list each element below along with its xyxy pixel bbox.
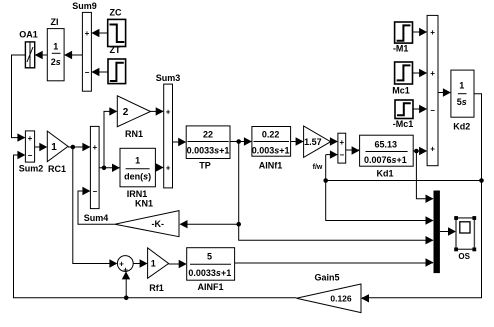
transfer fcn ZI 1/2s (47, 17, 64, 81)
step source -M1 (393, 22, 413, 53)
transfer fcn TP 22/(0.0033s+1) (186, 126, 230, 171)
wire TP branch down to -K- and Mux input 3 (180, 142, 434, 245)
transfer fcn Kd2 1/5s (451, 70, 474, 131)
svg-text:f/w: f/w (313, 164, 323, 171)
svg-text:−: − (339, 151, 344, 160)
wire Sum2 to RC1 (35, 143, 48, 151)
svg-text:Sum9: Sum9 (72, 1, 97, 11)
wire ZC to Sum9 plus (91, 29, 107, 37)
sum block right Sum6 (427, 15, 438, 165)
wire ZT to Sum9 minus (91, 68, 108, 76)
wire TP to AINf1 with junction (230, 137, 252, 145)
wire ZI to OA1 (35, 51, 48, 59)
svg-text:1: 1 (51, 142, 57, 153)
svg-text:0.0033s+1: 0.0033s+1 (187, 146, 230, 156)
wire Sum4 to IRN1 with branch up to RN1 (99, 107, 120, 172)
svg-text:AINF1: AINF1 (197, 282, 223, 292)
svg-text:ZC: ZC (110, 8, 122, 18)
sum block Sum2 (19, 131, 44, 174)
step source -Mc1 (393, 100, 414, 129)
svg-text:KN1: KN1 (135, 198, 153, 208)
sum block Sum4 (84, 126, 109, 223)
step source ZT (108, 45, 126, 84)
gain f/w value 1.57 (304, 126, 331, 171)
svg-text:0.003s+1: 0.003s+1 (252, 146, 290, 156)
svg-text:1: 1 (135, 155, 140, 165)
wire RN1 to Sum3 upper plus (151, 107, 164, 115)
svg-text:TP: TP (199, 161, 211, 171)
wire Kd2 branch left to Sum5 minus and Mux input 2 (323, 150, 481, 224)
gain Rf1 value 1 (148, 248, 169, 293)
svg-text:22: 22 (203, 129, 213, 139)
svg-text:1: 1 (459, 80, 464, 90)
svg-text:Sum4: Sum4 (84, 213, 109, 223)
svg-text:+: + (85, 29, 90, 38)
wire Mc1 to right sum (413, 69, 428, 77)
svg-text:ZT: ZT (110, 45, 121, 55)
svg-text:−: − (85, 68, 90, 77)
svg-text:-Mc1: -Mc1 (393, 119, 414, 129)
svg-text:2s: 2s (51, 57, 61, 67)
svg-text:2: 2 (123, 107, 129, 118)
svg-text:0.0076s+1: 0.0076s+1 (364, 155, 407, 165)
svg-text:den(s): den(s) (124, 171, 151, 181)
step source ZC (108, 8, 126, 47)
wire -K- output to Sum4 minus (78, 187, 115, 224)
svg-text:RN1: RN1 (125, 129, 143, 139)
svg-text:RC1: RC1 (48, 164, 66, 174)
svg-text:+: + (339, 138, 344, 147)
svg-text:Sum3: Sum3 (156, 73, 181, 83)
svg-text:+: + (28, 134, 33, 143)
round sum Sum7 (117, 256, 133, 275)
svg-text:Kd1: Kd1 (376, 168, 393, 178)
svg-text:+: + (166, 163, 171, 172)
wire Mux to scope OS (440, 227, 456, 235)
svg-text:1: 1 (151, 259, 156, 269)
wire RC1 to Sum4 plus with junction (68, 143, 90, 151)
wire Sum9 to ZI (64, 51, 82, 59)
sum block Sum9 (72, 1, 97, 91)
wire round sum to Rf1 (133, 259, 147, 267)
sum block Sum3 (156, 73, 181, 188)
sum block Sum5 (338, 133, 346, 163)
svg-text:65.13: 65.13 (375, 140, 398, 150)
svg-text:Kd2: Kd2 (453, 121, 470, 131)
step source Mc1 (392, 62, 412, 95)
svg-text:+: + (430, 28, 435, 37)
wire Rf1 to AINF1 (169, 260, 187, 268)
transfer fcn AINf1 0.22/(0.003s+1) (252, 127, 291, 171)
wire Gain5 output along bottom to Sum2 minus with branch up to round sum (14, 151, 297, 300)
mux Mux1 (434, 191, 440, 274)
svg-text:1.57: 1.57 (304, 137, 322, 147)
gain RN1 value 2 (117, 96, 150, 139)
svg-text:+: + (166, 107, 171, 116)
svg-text:OS: OS (458, 252, 470, 261)
scope OS with selection handles (454, 216, 476, 261)
svg-text:−: − (28, 151, 33, 160)
wire RC1 branch down to round sum (73, 147, 118, 268)
svg-text:Gain5: Gain5 (314, 273, 339, 283)
svg-text:5s: 5s (457, 97, 467, 107)
wire Sum5 to Kd1 (346, 146, 360, 154)
wire AINf1 to gain f/w (291, 137, 304, 145)
wire OA1 to Sum2 plus (12, 55, 26, 142)
svg-text:1: 1 (53, 42, 58, 52)
svg-text:Sum2: Sum2 (19, 164, 44, 174)
svg-text:0.0033s+1: 0.0033s+1 (188, 268, 231, 278)
svg-text:Rf1: Rf1 (149, 283, 164, 293)
wire -M1 to right sum (413, 28, 428, 36)
svg-text:OA1: OA1 (19, 30, 38, 40)
wire Sum3 to TP (173, 138, 187, 146)
svg-text:-M1: -M1 (393, 43, 409, 53)
svg-text:-K-: -K- (152, 219, 165, 229)
svg-text:Mc1: Mc1 (392, 85, 410, 95)
svg-text:5: 5 (207, 251, 212, 261)
wire Kd1 to right sum with junction and branch to Mux input 1 (413, 147, 433, 203)
svg-text:ZI: ZI (51, 17, 59, 27)
wire Kd2 feedback down right side to Gain5 (361, 94, 484, 303)
svg-text:+: + (430, 69, 435, 78)
svg-text:−: − (92, 187, 97, 196)
gain RC1 value 1 (47, 131, 68, 174)
wire AINF1 to Mux input 4 (235, 258, 434, 266)
wire f/w to Sum5 plus (330, 137, 338, 145)
wire -Mc1 to right sum (413, 105, 427, 113)
block OA1 (19, 30, 38, 68)
svg-text:0.22: 0.22 (262, 129, 280, 139)
transfer fcn IRN1 1/den(s) (120, 148, 155, 208)
transfer fcn AINF1 5/(0.0033s+1) (187, 248, 235, 293)
svg-text:0.126: 0.126 (330, 294, 352, 304)
svg-text:+: + (92, 143, 97, 152)
gain Gain5 value 0.126 pointing left (296, 273, 361, 313)
svg-text:AINf1: AINf1 (259, 161, 283, 171)
wire right sum to Kd2 (438, 88, 451, 96)
svg-text:−: − (430, 106, 435, 115)
gain -K- pointing left (115, 211, 179, 237)
wire IRN1 to Sum3 lower plus (155, 163, 163, 171)
svg-text:+: + (430, 145, 435, 154)
transfer fcn Kd1 65.13/(0.0076s+1) (360, 135, 414, 178)
